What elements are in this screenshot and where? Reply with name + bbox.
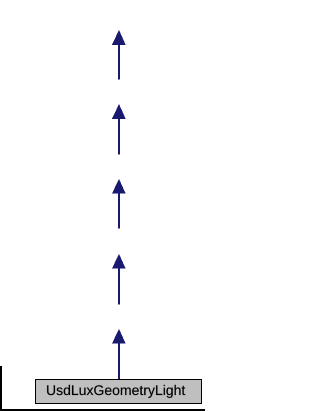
arrow 4 (edge to UsdGeomXformable) <box>112 254 126 305</box>
arrow 2 (edge to UsdTyped) <box>112 104 126 155</box>
left edge partial line <box>0 366 2 411</box>
bottom edge partial line <box>0 409 205 411</box>
arrow 5 (edge to UsdLuxLight) <box>112 329 126 379</box>
arrow 3 (edge to UsdGeomImageable) <box>112 179 126 229</box>
inheritance diagram for UsdLuxGeometryLight <box>0 0 237 411</box>
arrow 1 (edge to UsdSchemaBase) <box>112 30 126 80</box>
class box UsdLuxGeometryLight <box>36 380 202 404</box>
